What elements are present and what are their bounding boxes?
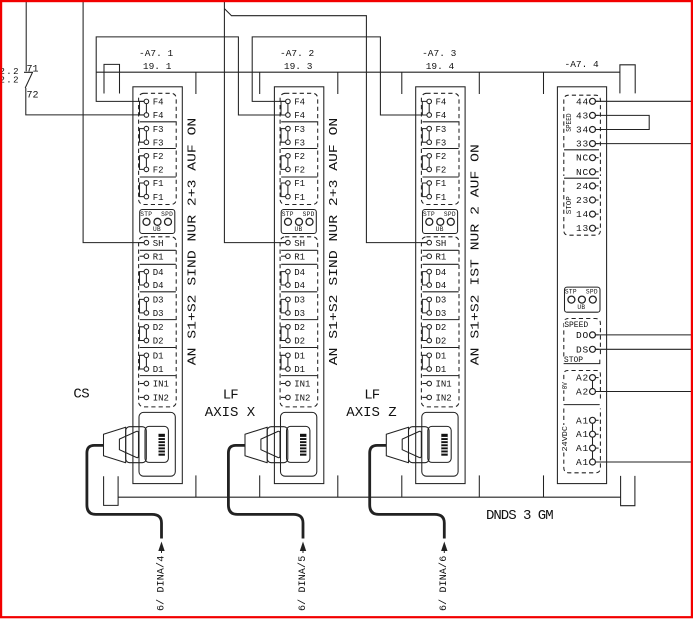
module A7.4 terminal A1 pin circle 2 [590,431,596,437]
module A7.2 dashed group frame F4-F1 [280,93,318,204]
module A7.4 STOP label [564,356,583,365]
module A7.1 connector socket [139,412,175,476]
module A7.4 outline box [557,87,606,484]
module A7.4 terminal label 23 [576,195,589,206]
module A7.4 terminal A1 pin circle 4 [590,459,596,465]
module A7.1 terminal label F2 [153,166,164,176]
module A7.3 UB label [436,226,444,233]
svg-text:AN S1+S2 IST NUR 2 AUF ON: AN S1+S2 IST NUR 2 AUF ON [469,144,483,365]
module A7.4 dashed frame DO/DS [564,319,601,357]
module A7.1 terminal label R1 [153,252,164,262]
module A7.1 jumper D1 pair [145,358,147,367]
module A7.4 terminal 34 pin circle [590,127,596,133]
module A7.2 separator line [281,347,317,349]
svg-text:D3: D3 [153,309,164,319]
svg-text:F2: F2 [153,166,164,176]
module A7.2 separator line [281,249,317,251]
svg-text:UB: UB [577,304,585,311]
module A7.4 terminal A2b pin circle [590,389,596,395]
svg-text:D4: D4 [153,268,164,278]
module A7.1 terminal label D2 [153,323,164,333]
module A7.2 terminal D4 pin circle [286,269,291,274]
module A7.3 stub IN1 [422,383,427,385]
svg-text:14: 14 [576,209,589,220]
module A7.1 terminal D3 pin circle [144,311,149,316]
svg-text:F2: F2 [294,152,305,162]
svg-text:LF: LF [223,387,238,403]
label -A7.1 [139,48,174,59]
module A7.3 terminal label F4 [436,111,447,121]
module A7.4 vertical 24VDC label [562,425,570,453]
bottom rail tick 1 [195,475,197,497]
svg-text:6/ DINA/4: 6/ DINA/4 [155,556,167,611]
bottom rail tick 5 [478,475,480,497]
module A7.3 jumper F4 pair [428,104,430,113]
svg-text:-A7. 1: -A7. 1 [139,48,174,59]
module A7.2 bracket D1 pair [281,355,286,369]
svg-text:D4: D4 [436,268,447,278]
module A7.1 connector cavity [145,426,168,462]
module A7.4 stub NC [595,171,599,173]
wire: 45-degree tap and feed to module A7.3 terminal SH [224,9,427,243]
svg-text:F3: F3 [294,125,305,135]
module A7.3 terminal label F3 [436,138,447,148]
module A7.1 terminal IN2 pin circle [144,395,149,400]
module A7.2 separator line [281,148,317,150]
module A7.1 terminal IN1 pin circle [144,381,149,386]
module A7.1 plug face [119,431,138,457]
module A7.4 terminal label 43 [576,110,589,121]
module A7.1 terminal label F1 [153,179,164,189]
module A7.1 jumper D3 pair [145,302,147,311]
module A7.4 jumper A1 chain [592,423,594,460]
module A7.4 terminal label A1 1 [576,415,589,426]
svg-text:R1: R1 [294,252,305,262]
module A7.3 bracket D2 pair [422,327,427,341]
module A7.3 stub R1 [422,255,427,257]
module A7.2 bracket F3 pair [281,129,286,143]
module A7.3 jumper F3 pair [428,131,430,140]
module A7.1 terminal D2 pin circle [144,325,149,330]
module A7.3 terminal label IN2 [436,394,452,404]
module A7.3 STP/SPD/UB block [423,210,458,234]
module A7.2 bracket F1 pair [281,183,286,197]
module A7.1 bracket F3 pair [140,129,145,143]
module A7.3 separator line [423,319,459,321]
module A7.2 bracket D4 pair [281,272,286,285]
module A7.2 terminal F1 pin circle [286,181,291,186]
module A7.3 terminal D3 pin circle [427,297,432,302]
module A7.3 jumper D4 pair [428,274,430,283]
module A7.1 terminal label D3 [153,296,164,306]
module A7.2 cable end arrow [300,542,306,554]
svg-text:AXIS X: AXIS X [205,405,256,421]
module A7.3 plug nose [409,427,430,463]
module A7.2 terminal label F4 [294,111,305,121]
module A7.3 cable [370,445,445,538]
module A7.3 separator line [423,121,459,123]
wire: arch from A7.1 F4 (upper) over label to A7.2 F4 (lower) [96,37,285,115]
svg-text:A1: A1 [576,443,589,454]
svg-text:F2: F2 [153,152,164,162]
module A7.3 terminal F4 pin circle [427,113,432,118]
svg-text:F1: F1 [294,193,305,203]
module A7.4 terminal label 14 [576,209,589,220]
svg-text:F3: F3 [153,125,164,135]
module A7.2 separator line [281,375,317,377]
module A7.4 terminal 33 pin circle [590,141,596,147]
svg-text:NC: NC [576,167,589,178]
svg-text:D1: D1 [436,352,447,362]
svg-text:F4: F4 [153,98,164,108]
module A7.2 separator line [281,319,317,321]
svg-text:-A7. 3: -A7. 3 [422,48,457,59]
module A7.1 terminal F2 pin circle [144,167,149,172]
module A7.2 jumper D2 pair [287,329,289,338]
module A7.4 dashed frame 24-13 [564,181,601,236]
module A7.2 UB label [295,226,303,233]
svg-text:DNDS 3 GM: DNDS 3 GM [486,508,553,524]
module A7.1 STP/SPD/UB block [140,210,175,234]
module A7.2 bracket F4 pair [281,101,286,115]
module A7.1 cable [87,445,162,538]
svg-text:IN2: IN2 [153,394,169,404]
module A7.1 cable end arrow [158,542,164,554]
module A7.1 terminal F1 pin circle [144,181,149,186]
svg-text:D3: D3 [294,309,305,319]
module A7.2 plug nose [267,427,288,463]
module A7.4 stub 23 [595,199,599,201]
module A7.2 terminal IN2 pin circle [286,395,291,400]
module A7.1 jumper D2 pair [145,329,147,338]
svg-text:DS: DS [576,344,589,355]
module A7.2 SPD label [303,211,315,218]
module A7.4 dashed frame A1 [564,409,601,473]
module A7.4 terminal 14 pin circle [590,211,596,217]
wire: from switch 72 down and right to module A7.1 terminal F4 (lower) [26,88,144,115]
module A7.3 separator line [423,347,459,349]
module A7.4 terminal DS pin circle [590,346,596,352]
top rail left end bracket [104,64,120,93]
module A7.1 stub R1 [140,255,145,257]
svg-text:UB: UB [436,226,444,233]
module A7.1 separator line [140,291,176,293]
module A7.1 plug backshell [104,427,126,463]
module A7.4 terminal label DO [576,330,589,341]
module A7.2 terminal SH pin circle [286,240,291,245]
module A7.4 terminal label A2b [576,387,589,398]
module A7.2 jumper F2 pair [287,158,289,167]
module A7.2 terminal label F2 [294,152,305,162]
module A7.2 connector socket [281,412,317,476]
module A7.1 plug nose [126,427,147,463]
switch contact 71/72 (NC contact blade) [24,72,33,88]
module A7.1 separator line [140,347,176,349]
module A7.2 terminal label SH [294,239,305,249]
svg-text:R1: R1 [153,252,164,262]
svg-text:24VDC: 24VDC [562,426,570,452]
module A7.1 dashed group frame SH-IN2 [139,237,177,407]
module A7.2 terminal D3 pin circle [286,311,291,316]
svg-text:D2: D2 [436,337,447,347]
module A7.3 terminal label D3 [436,296,447,306]
svg-text:23: 23 [576,195,589,206]
module A7.2 separator line [281,121,317,123]
label -A7.3 [422,48,457,59]
module A7.3 terminal label D1 [436,365,447,375]
module A7.2 terminal D3 pin circle [286,297,291,302]
svg-text:IN1: IN1 [436,380,452,390]
svg-text:2.2: 2.2 [0,76,20,86]
svg-text:F3: F3 [153,138,164,148]
module A7.4 stub 44 [595,100,599,102]
module A7.1 separator line [140,176,176,178]
module A7.3 terminal F2 pin circle [427,167,432,172]
module A7.3 jumper F1 pair [428,185,430,194]
module A7.2 terminal label D1 [294,352,305,362]
module A7.3 terminal label F2 [436,152,447,162]
module A7.2 terminal D1 pin circle [286,367,291,372]
module A7.3 terminal D1 pin circle [427,353,432,358]
module A7.1 terminal label D3 [153,309,164,319]
svg-text:UB: UB [295,226,303,233]
module A7.1 block circles [143,218,172,225]
svg-text:6/ DINA/6: 6/ DINA/6 [438,556,450,611]
module A7.1 terminal label F4 [153,98,164,108]
svg-text:19. 4: 19. 4 [426,61,455,72]
svg-text:D2: D2 [153,337,164,347]
svg-text:SPEED: SPEED [566,113,574,131]
svg-text:IN1: IN1 [153,380,169,390]
svg-text:SPD: SPD [586,289,598,296]
svg-text:F4: F4 [436,98,447,108]
module A7.2 terminal D1 pin circle [286,353,291,358]
module A7.2 outline box [274,87,323,484]
module A7.2 STP/SPD/UB block [281,210,316,234]
module A7.2 terminal IN1 pin circle [286,381,291,386]
label AXIS X (module A7.2) [205,405,256,421]
wire: incoming line to switch -S contact 71 [25,0,27,71]
wire: A7.4 terminal DO to right edge [595,334,691,336]
module A7.3 terminal R1 pin circle [427,254,432,259]
module A7.1 separator line [140,249,176,251]
module A7.4 terminal label A1 2 [576,429,589,440]
svg-text:LF: LF [364,387,379,403]
svg-text:SPEED: SPEED [564,321,588,330]
module A7.1 terminal F3 pin circle [144,140,149,145]
module A7.2 terminal label R1 [294,252,305,262]
module A7.4 terminal 44 pin circle [590,98,596,104]
module A7.4 stub 43 [595,114,599,116]
module A7.3 terminal F2 pin circle [427,154,432,159]
bottom mounting rail bus [118,496,620,498]
module A7.4 terminal label 44 [576,96,589,107]
module A7.1 bracket D4 pair [140,272,145,285]
module A7.2 block circles [285,218,314,225]
svg-text:NC: NC [576,153,589,164]
module A7.4 terminal label NC [576,167,589,178]
module A7.2 terminal label F2 [294,166,305,176]
svg-text:F4: F4 [436,111,447,121]
module A7.1 separator line [140,263,176,265]
module A7.4 dashed frame 44-33 [564,95,601,147]
svg-text:D3: D3 [436,296,447,306]
svg-text:19. 3: 19. 3 [284,61,313,72]
wire: A7.4 terminal 44 to right edge [595,100,691,102]
module A7.3 vertical note [469,144,483,365]
module A7.2 terminal F2 pin circle [286,154,291,159]
svg-text:UB: UB [153,226,161,233]
svg-text:-A7. 4: -A7. 4 [565,59,600,70]
module A7.3 jumper D1 pair [428,358,430,367]
module A7.2 jumper D4 pair [287,274,289,283]
svg-text:F1: F1 [153,179,164,189]
module A7.4 jumper A2 pair [592,380,594,389]
module A7.1 stub SH [140,242,145,244]
module A7.1 terminal D3 pin circle [144,297,149,302]
module A7.2 plug face [261,431,280,457]
module A7.2 terminal label F4 [294,98,305,108]
module A7.1 cable destination label [155,556,167,611]
module A7.3 terminal SH pin circle [427,240,432,245]
label AXIS Z (module A7.3) [346,405,396,421]
module A7.4 stub 13 [595,227,599,229]
module A7.3 jumper F2 pair [428,158,430,167]
module A7.4 terminal label A2 [576,373,589,384]
label LF (module A7.2) [223,387,238,403]
module A7.1 stub IN1 [140,383,145,385]
svg-text:D3: D3 [153,296,164,306]
module A7.3 terminal label IN1 [436,380,452,390]
svg-text:34: 34 [576,125,589,136]
module A7.2 terminal F2 pin circle [286,167,291,172]
label 19.1 [143,61,172,72]
module A7.4 terminal label 33 [576,139,589,150]
svg-text:SH: SH [294,239,305,249]
module A7.1 terminal F4 pin circle [144,113,149,118]
svg-text:F1: F1 [153,193,164,203]
svg-text:STP: STP [140,211,152,218]
svg-text:SH: SH [153,239,164,249]
module A7.1 terminal label D1 [153,365,164,375]
module A7.2 STP label [282,211,294,218]
svg-text:72: 72 [27,90,39,101]
module A7.3 cable end arrow [441,542,447,554]
wire: A7.4 terminal 33 to right edge [595,143,691,145]
module A7.3 jumper D3 pair [428,302,430,311]
module A7.1 jumper F1 pair [145,185,147,194]
label DNDS 3 GM [486,508,553,524]
module A7.1 terminal label F3 [153,125,164,135]
module A7.2 stub R1 [281,255,286,257]
svg-text:D3: D3 [294,296,305,306]
wire: arch from A7.2 F4 (upper) over label to A7.3 F4 (lower) [252,37,427,115]
svg-text:F1: F1 [436,193,447,203]
svg-text:IN2: IN2 [294,394,310,404]
module A7.2 terminal label D4 [294,268,305,278]
module A7.3 terminal F3 pin circle [427,126,432,131]
module A7.2 separator line [281,176,317,178]
top mounting rail bus [96,71,620,73]
module A7.2 plug backshell [245,427,267,463]
module A7.3 terminal F1 pin circle [427,181,432,186]
module A7.2 terminal F4 pin circle [286,99,291,104]
module A7.1 terminal D1 pin circle [144,367,149,372]
top rail tick 3 [337,72,339,94]
module A7.4 terminal NC pin circle [590,155,596,161]
svg-text:F4: F4 [294,98,305,108]
module A7.1 vertical note [186,118,200,365]
svg-text:D2: D2 [294,323,305,333]
module A7.4 terminal label 34 [576,125,589,136]
svg-text:6/ DINA/5: 6/ DINA/5 [297,556,309,611]
module A7.3 terminal F1 pin circle [427,194,432,199]
svg-text:SPD: SPD [303,211,315,218]
module A7.4 vertical SPEED label [565,112,574,133]
module A7.2 stub SH [281,242,286,244]
module A7.4 stub DS [595,348,599,350]
wire: vertical feed to module A7.1 terminal SH [83,0,144,243]
module A7.1 terminal F4 pin circle [144,99,149,104]
label -A7.2 [280,48,315,59]
module A7.3 bracket F1 pair [422,183,427,197]
module A7.1 SPD label [161,211,173,218]
svg-text:A2: A2 [576,387,589,398]
module A7.1 terminal label F2 [153,152,164,162]
module A7.2 terminal F3 pin circle [286,126,291,131]
module A7.3 terminal label F3 [436,125,447,135]
module A7.3 jumper D2 pair [428,329,430,338]
module A7.4 terminal 24 pin circle [590,183,596,189]
svg-text:A1: A1 [576,429,589,440]
svg-text:43: 43 [576,110,589,121]
module A7.3 terminal D1 pin circle [427,367,432,372]
svg-text:STP: STP [282,211,294,218]
module A7.3 terminal D3 pin circle [427,311,432,316]
svg-text:F4: F4 [294,111,305,121]
module A7.3 separator line [423,263,459,265]
module A7.2 stub IN1 [281,383,286,385]
svg-text:IN2: IN2 [436,394,452,404]
module A7.1 terminal D2 pin circle [144,338,149,343]
module A7.4 stub 33 [595,143,599,145]
svg-text:F2: F2 [436,152,447,162]
module A7.3 terminal label D3 [436,309,447,319]
module A7.1 outline box [133,87,182,484]
module A7.3 separator line [423,249,459,251]
module A7.2 terminal label IN1 [294,380,310,390]
module A7.2 terminal D2 pin circle [286,325,291,330]
module A7.1 terminal D1 pin circle [144,353,149,358]
svg-text:A2: A2 [576,373,589,384]
module A7.4 terminal 23 pin circle [590,197,596,203]
module A7.4 terminal DO pin circle [590,332,596,338]
module A7.1 terminal R1 pin circle [144,254,149,259]
module A7.3 terminal label R1 [436,252,447,262]
bottom rail tick 4 [401,475,403,497]
module A7.2 terminal label D3 [294,296,305,306]
module A7.1 terminal SH pin circle [144,240,149,245]
module A7.2 terminal F1 pin circle [286,194,291,199]
svg-text:F3: F3 [436,125,447,135]
module A7.4 terminal A1 pin circle 1 [590,417,596,423]
top rail tick 5 [478,72,480,94]
module A7.2 terminal label IN2 [294,394,310,404]
module A7.3 plug face [402,431,421,457]
module A7.1 stub IN2 [140,396,145,398]
module A7.2 terminal label F3 [294,125,305,135]
svg-text:D1: D1 [153,365,164,375]
